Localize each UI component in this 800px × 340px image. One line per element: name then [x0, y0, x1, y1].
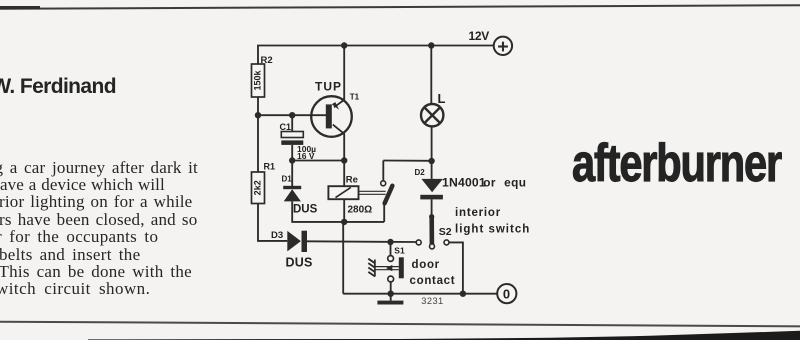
junction C1 bottom / D1 node — [289, 157, 295, 163]
wire D1 top — [291, 161, 293, 187]
junction S2 branch / 0 rail — [460, 291, 466, 297]
bottom thin rule — [0, 320, 800, 326]
author name W. Ferdinand — [0, 76, 116, 97]
diode D2 (1N4001) — [415, 168, 527, 199]
wire bottom rail — [343, 293, 497, 295]
junction lamp / D2 node — [428, 158, 434, 164]
svg-text:or equ: or equ — [483, 175, 526, 189]
svg-text:L: L — [438, 91, 446, 106]
diode D3 (DUS) — [271, 230, 313, 269]
wire contact feed to lamp node — [383, 160, 431, 162]
wire S2 right contact to 0 rail — [449, 242, 463, 293]
switch S1 door contact — [388, 245, 456, 287]
wire R1 bottom to D3 — [258, 204, 287, 241]
resistor R1 — [252, 162, 276, 204]
svg-text:S1: S1 — [394, 245, 405, 255]
wire emitter to top rail — [343, 46, 345, 100]
wire contact bottom — [383, 204, 385, 222]
svg-text:280Ω: 280Ω — [348, 204, 373, 215]
svg-text:T1: T1 — [350, 93, 360, 102]
diode D1 (DUS) — [282, 175, 318, 216]
svg-text:S2: S2 — [439, 226, 452, 238]
terminal 0 — [497, 284, 516, 303]
wire node row C1/D1 to collector node — [292, 160, 344, 162]
junction C1 top / base wire — [289, 112, 295, 118]
body text column — [0, 159, 230, 298]
wire relay contact top — [382, 161, 384, 181]
wire C1 bottom to node — [291, 145, 293, 161]
junction emitter / supply rail — [341, 42, 347, 48]
svg-text:R2: R2 — [261, 55, 273, 66]
wire S1 top stub — [390, 242, 392, 256]
svg-text:3231: 3231 — [421, 296, 443, 306]
wire relay coil bottom — [343, 199, 345, 222]
wire R2 bottom to base node — [257, 97, 259, 115]
capacitor C1 — [280, 122, 317, 161]
terminal +12V — [469, 29, 513, 55]
junction collector / relay coil node — [341, 157, 347, 163]
wire lamp top — [430, 46, 432, 105]
relay contact — [381, 181, 393, 204]
svg-text:TUP: TUP — [315, 80, 342, 94]
S1 actuator link and wall — [368, 259, 399, 277]
svg-text:R1: R1 — [264, 162, 276, 172]
junction D3 wire / S1 — [387, 239, 393, 245]
svg-text:DUS: DUS — [293, 204, 318, 216]
svg-text:D2: D2 — [415, 168, 426, 177]
ground below S1 — [377, 301, 403, 305]
svg-text:light switch: light switch — [455, 223, 530, 235]
svg-text:1N4001: 1N4001 — [442, 175, 486, 189]
relay contact mechanical link — [359, 191, 386, 194]
relay Re coil — [328, 175, 372, 216]
svg-text:12V: 12V — [469, 29, 490, 43]
wire S1 ground stub — [390, 294, 392, 301]
svg-text:C1: C1 — [280, 122, 292, 132]
lamp L — [421, 91, 446, 127]
wire S1 bottom stub — [390, 282, 392, 294]
svg-text:150k: 150k — [253, 69, 263, 90]
junction R2 / R1 / base node — [255, 112, 261, 118]
svg-text:D1: D1 — [282, 175, 293, 184]
svg-text:D3: D3 — [271, 230, 283, 241]
wire C1 tap — [291, 115, 293, 131]
wire top supply rail — [258, 46, 495, 65]
junction relay coil bottom node — [341, 219, 347, 225]
wire D2 cathode to S2 — [431, 199, 433, 216]
wire base node down to R1 — [257, 115, 259, 172]
svg-text:interior: interior — [455, 207, 501, 219]
wire relay coil top — [343, 161, 345, 187]
switch S2 interior light switch — [416, 207, 530, 249]
junction S1 / 0 rail / ground — [388, 291, 394, 297]
wire collector to node — [343, 134, 345, 161]
article title afterburner — [572, 137, 781, 190]
transistor T1 (TUP, PNP) — [311, 80, 359, 137]
svg-text:2k2: 2k2 — [253, 180, 263, 195]
svg-text:DUS: DUS — [286, 255, 313, 269]
resistor R2 — [252, 55, 273, 97]
wire base — [258, 114, 326, 116]
svg-text:Re: Re — [346, 175, 358, 186]
page top rule — [0, 4, 800, 9]
wire D1 bottom to lower node row — [292, 201, 384, 222]
junction lamp / supply rail — [428, 42, 434, 48]
svg-text:16 V: 16 V — [297, 151, 315, 161]
wire lower node to bottom rail — [342, 222, 344, 294]
wire D3 cathode to S1/S2 — [307, 240, 416, 243]
svg-text:0: 0 — [503, 287, 510, 302]
svg-text:door: door — [412, 259, 440, 271]
svg-text:contact: contact — [410, 275, 456, 287]
wire lamp bottom to D2 — [431, 126, 433, 179]
